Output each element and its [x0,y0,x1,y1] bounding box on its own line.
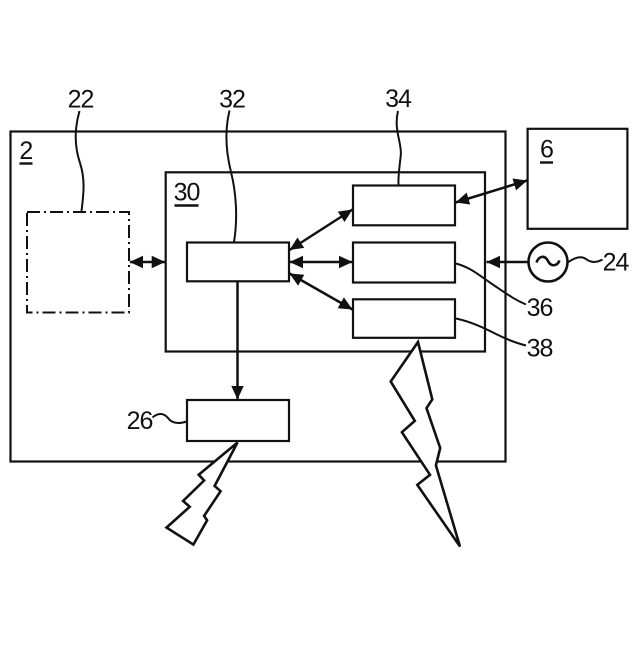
svg-text:22: 22 [68,86,94,114]
label 6 [540,136,553,164]
AC source 24 [529,243,568,282]
arrowhead 32-36 left [290,256,304,268]
block 26 [187,400,289,441]
leader 34 [397,111,401,185]
wire arrow 32-36 [290,261,353,264]
enclosure box 2 [11,132,506,462]
arrowhead 22-30 left [130,256,144,268]
svg-text:36: 36 [527,294,553,322]
arrowhead 24-30 [487,256,501,268]
svg-text:32: 32 [219,86,245,114]
arrowhead 32-34 high [338,210,353,223]
external box 6 [528,129,628,229]
lightning bolt small [167,443,238,545]
arrowhead 32-34 low [290,238,305,251]
wire arrow 24-30 [487,261,528,264]
arrowhead 34-6 low [456,193,471,205]
leader 24 [569,257,603,262]
arrowhead 32-36 right [339,256,353,268]
wire arrow 32-26 [236,282,239,400]
leader 22 [76,111,84,211]
control box 30 [166,172,485,351]
leader 36 [456,264,526,305]
lightning bolt large [391,342,460,547]
arrowhead 32-38 high [338,297,353,309]
leader 26 [153,414,187,423]
leader 38 [456,319,526,346]
svg-text:38: 38 [527,335,553,363]
svg-text:2: 2 [19,137,32,165]
block 36 [353,243,455,283]
arrowhead 32-26 [231,386,243,400]
svg-text:30: 30 [174,178,200,206]
wire arrow 22-30 [130,261,165,264]
svg-text:24: 24 [603,249,630,277]
label 30 [174,178,200,206]
leader 32 [226,111,236,243]
block 32 [187,243,289,282]
block 38 [353,299,455,338]
arrowhead 32-38 low [290,274,305,286]
block 34 [353,186,455,226]
svg-text:34: 34 [385,85,412,113]
svg-text:26: 26 [127,407,153,435]
wire arrow 32-34 [290,210,353,251]
dashed unit box 22 [27,212,129,313]
label 2 [19,137,32,165]
wire arrow 32-38 [290,274,353,310]
wire arrow 34-6 [456,181,528,203]
svg-text:6: 6 [540,136,553,164]
arrowhead 34-6 high [513,179,528,191]
arrowhead 22-30 right [152,256,166,268]
